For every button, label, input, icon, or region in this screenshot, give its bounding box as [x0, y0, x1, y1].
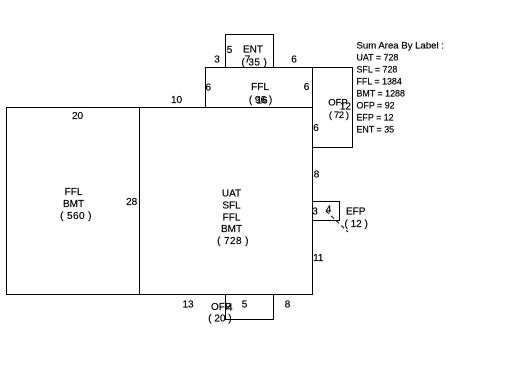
- svg-text:3: 3: [312, 207, 318, 218]
- svg-text:( 560 ): ( 560 ): [60, 211, 92, 222]
- svg-text:11: 11: [313, 253, 324, 264]
- svg-text:4: 4: [326, 205, 332, 216]
- svg-text:SFL = 728: SFL = 728: [357, 65, 398, 75]
- svg-text:( 20 ): ( 20 ): [208, 314, 231, 325]
- svg-text:28: 28: [126, 197, 138, 208]
- svg-text:BMT: BMT: [221, 224, 242, 235]
- svg-text:UAT = 728: UAT = 728: [357, 53, 399, 63]
- svg-text:SFL: SFL: [222, 200, 241, 211]
- svg-text:FFL: FFL: [251, 82, 269, 93]
- svg-text:5: 5: [227, 45, 233, 56]
- svg-text:OFP = 92: OFP = 92: [357, 101, 395, 111]
- svg-text:8: 8: [314, 170, 320, 181]
- svg-text:6: 6: [304, 82, 310, 93]
- svg-text:BMT: BMT: [63, 199, 84, 210]
- svg-text:( 12 ): ( 12 ): [345, 219, 368, 230]
- svg-text:6: 6: [291, 55, 297, 66]
- svg-text:ENT = 35: ENT = 35: [357, 125, 395, 135]
- svg-text:6: 6: [313, 123, 319, 134]
- svg-text:13: 13: [182, 300, 194, 311]
- svg-text:Sum Area By Label :: Sum Area By Label :: [357, 40, 444, 51]
- svg-text:ENT: ENT: [243, 45, 263, 56]
- svg-text:10: 10: [171, 95, 183, 106]
- svg-text:( 96 ): ( 96 ): [249, 95, 272, 106]
- svg-text:( 728 ): ( 728 ): [217, 236, 249, 247]
- svg-text:4: 4: [227, 303, 233, 314]
- svg-text:UAT: UAT: [222, 189, 241, 200]
- svg-text:BMT = 1288: BMT = 1288: [357, 89, 405, 99]
- svg-text:5: 5: [242, 300, 248, 311]
- svg-text:EFP = 12: EFP = 12: [357, 113, 394, 123]
- svg-text:EFP: EFP: [346, 207, 366, 218]
- svg-text:( 72 ): ( 72 ): [329, 110, 349, 121]
- svg-text:8: 8: [285, 300, 291, 311]
- svg-text:( 35 ): ( 35 ): [242, 58, 268, 69]
- svg-text:FFL: FFL: [223, 212, 241, 223]
- svg-text:20: 20: [72, 111, 84, 122]
- svg-text:FFL = 1384: FFL = 1384: [357, 77, 402, 87]
- svg-text:3: 3: [214, 55, 220, 66]
- svg-text:6: 6: [206, 83, 212, 94]
- svg-text:FFL: FFL: [65, 187, 83, 198]
